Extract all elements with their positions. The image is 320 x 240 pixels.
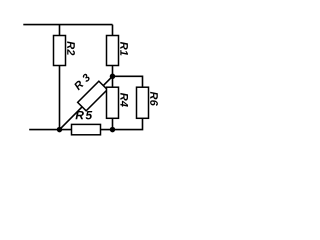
resistor R1 body — [107, 36, 119, 66]
resistor R6 body — [137, 87, 149, 118]
node lower-left junction dot — [57, 127, 63, 133]
wire node B to R6 bottom — [113, 118, 143, 129]
wire R2 bottom to lower-left node — [59, 66, 61, 130]
node A junction dot — [110, 74, 116, 80]
node B junction dot — [110, 127, 116, 133]
wire R2 top drop — [59, 25, 61, 36]
wire R1 top drop — [112, 25, 114, 36]
wire node A to R6 top — [113, 76, 143, 87]
resistor R5 body — [72, 124, 101, 134]
wire top rail — [23, 24, 112, 26]
label R3 — [73, 73, 91, 91]
label R1 — [120, 42, 128, 56]
resistor R4 body — [107, 87, 119, 118]
label R2 — [67, 41, 75, 55]
label R5 — [76, 111, 93, 119]
label R4 — [120, 93, 128, 107]
label R6 — [150, 92, 158, 106]
wire R4 bottom to node B — [112, 118, 114, 129]
wire R1 bottom to node A — [112, 66, 114, 77]
resistor R2 body — [54, 36, 66, 66]
wire diagonal R3 branch — [60, 76, 113, 129]
resistor R3 body (rotated 45) — [78, 81, 108, 111]
wire bottom rail left — [29, 129, 112, 131]
wire node A to R4 top — [112, 76, 114, 87]
